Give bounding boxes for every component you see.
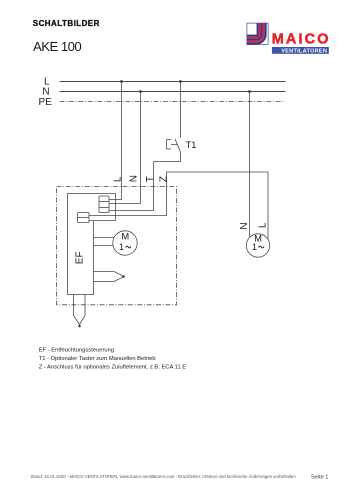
- wire N branch to right fan: [249, 92, 251, 238]
- logo stripe blue outer: [247, 23, 266, 43]
- sensor arrow tip dot: [122, 275, 125, 278]
- wire block2 to EF edge (step): [89, 220, 116, 222]
- svg-text:MAICO: MAICO: [272, 31, 331, 47]
- wire EF to motor M1 (lower): [94, 245, 114, 247]
- bus L: [60, 81, 286, 83]
- svg-text:T1 - Optionaler Taster zum Man: T1 - Optionaler Taster zum Manuellen Bet…: [39, 356, 156, 362]
- dashed enclosure box: [57, 187, 177, 305]
- motor M1 tilde: [126, 246, 131, 248]
- MAICO logo square: [247, 23, 268, 44]
- terminal block X2 (Z): [78, 213, 90, 223]
- pushbutton actuator of T1: [167, 140, 178, 150]
- svg-text:N: N: [128, 175, 139, 182]
- svg-text:Z: Z: [158, 176, 169, 182]
- junction dot N/M2: [248, 90, 251, 93]
- svg-text:N: N: [239, 222, 250, 229]
- svg-text:Stand: 16.01.2020 - MAICO VENT: Stand: 16.01.2020 - MAICO VENTILATOREN, …: [31, 474, 297, 479]
- svg-text:T: T: [145, 176, 156, 182]
- svg-text:Z - Anschluss für optionales Z: Z - Anschluss für optionales Zulufteleme…: [39, 364, 187, 370]
- motor M2 circle (supply fan): [246, 234, 269, 257]
- svg-text:N: N: [42, 86, 49, 97]
- svg-text:PE: PE: [39, 97, 53, 108]
- svg-text:1: 1: [252, 242, 257, 252]
- logo bar VENTILATOREN: [272, 47, 329, 54]
- EF controller body: [68, 194, 116, 295]
- logo stripe red: [247, 23, 260, 37]
- logo stripe blue inner: [247, 23, 258, 35]
- svg-text:T1: T1: [186, 140, 197, 150]
- svg-text:M: M: [121, 231, 129, 241]
- bus PE (dash-dot): [60, 101, 286, 103]
- motor M1 circle (exhaust fan): [113, 231, 137, 255]
- svg-text:L: L: [258, 222, 269, 228]
- logo stripe red outer: [247, 23, 264, 42]
- legend: [39, 347, 187, 370]
- junction dot L/T1: [179, 80, 182, 83]
- svg-text:EF: EF: [75, 251, 86, 264]
- bus N: [60, 91, 286, 93]
- wire Z from EF to right fan: [89, 172, 268, 239]
- wire L branch to EF: [109, 82, 122, 200]
- svg-text:1: 1: [119, 242, 124, 252]
- svg-text:L: L: [113, 176, 124, 182]
- humidity sensor arrow (horizontal): [94, 272, 125, 282]
- junction dot N/EF: [139, 90, 142, 93]
- svg-text:EF - Entfeuchtungssteuerung: EF - Entfeuchtungssteuerung: [39, 347, 114, 353]
- junction dot L/EF: [120, 80, 123, 83]
- probe tip dot: [78, 325, 81, 328]
- wire EF to motor M1 (upper): [94, 237, 115, 239]
- sensor probe (bottom): [74, 295, 86, 325]
- logo stripe blue mid: [247, 23, 262, 39]
- motor M2 tilde: [259, 246, 264, 248]
- svg-text:AKE 100: AKE 100: [33, 39, 81, 54]
- wire N branch to EF: [109, 92, 141, 204]
- switch T1 lever: [175, 139, 181, 152]
- svg-text:SCHALTBILDER: SCHALTBILDER: [33, 19, 100, 28]
- wire L branch to switch T1: [180, 82, 182, 139]
- svg-text:Seite 1: Seite 1: [311, 474, 328, 480]
- terminal block X1 (L,N,T): [99, 196, 109, 213]
- wire T from switch to EF: [109, 152, 181, 211]
- svg-text:VENTILATOREN: VENTILATOREN: [281, 49, 327, 55]
